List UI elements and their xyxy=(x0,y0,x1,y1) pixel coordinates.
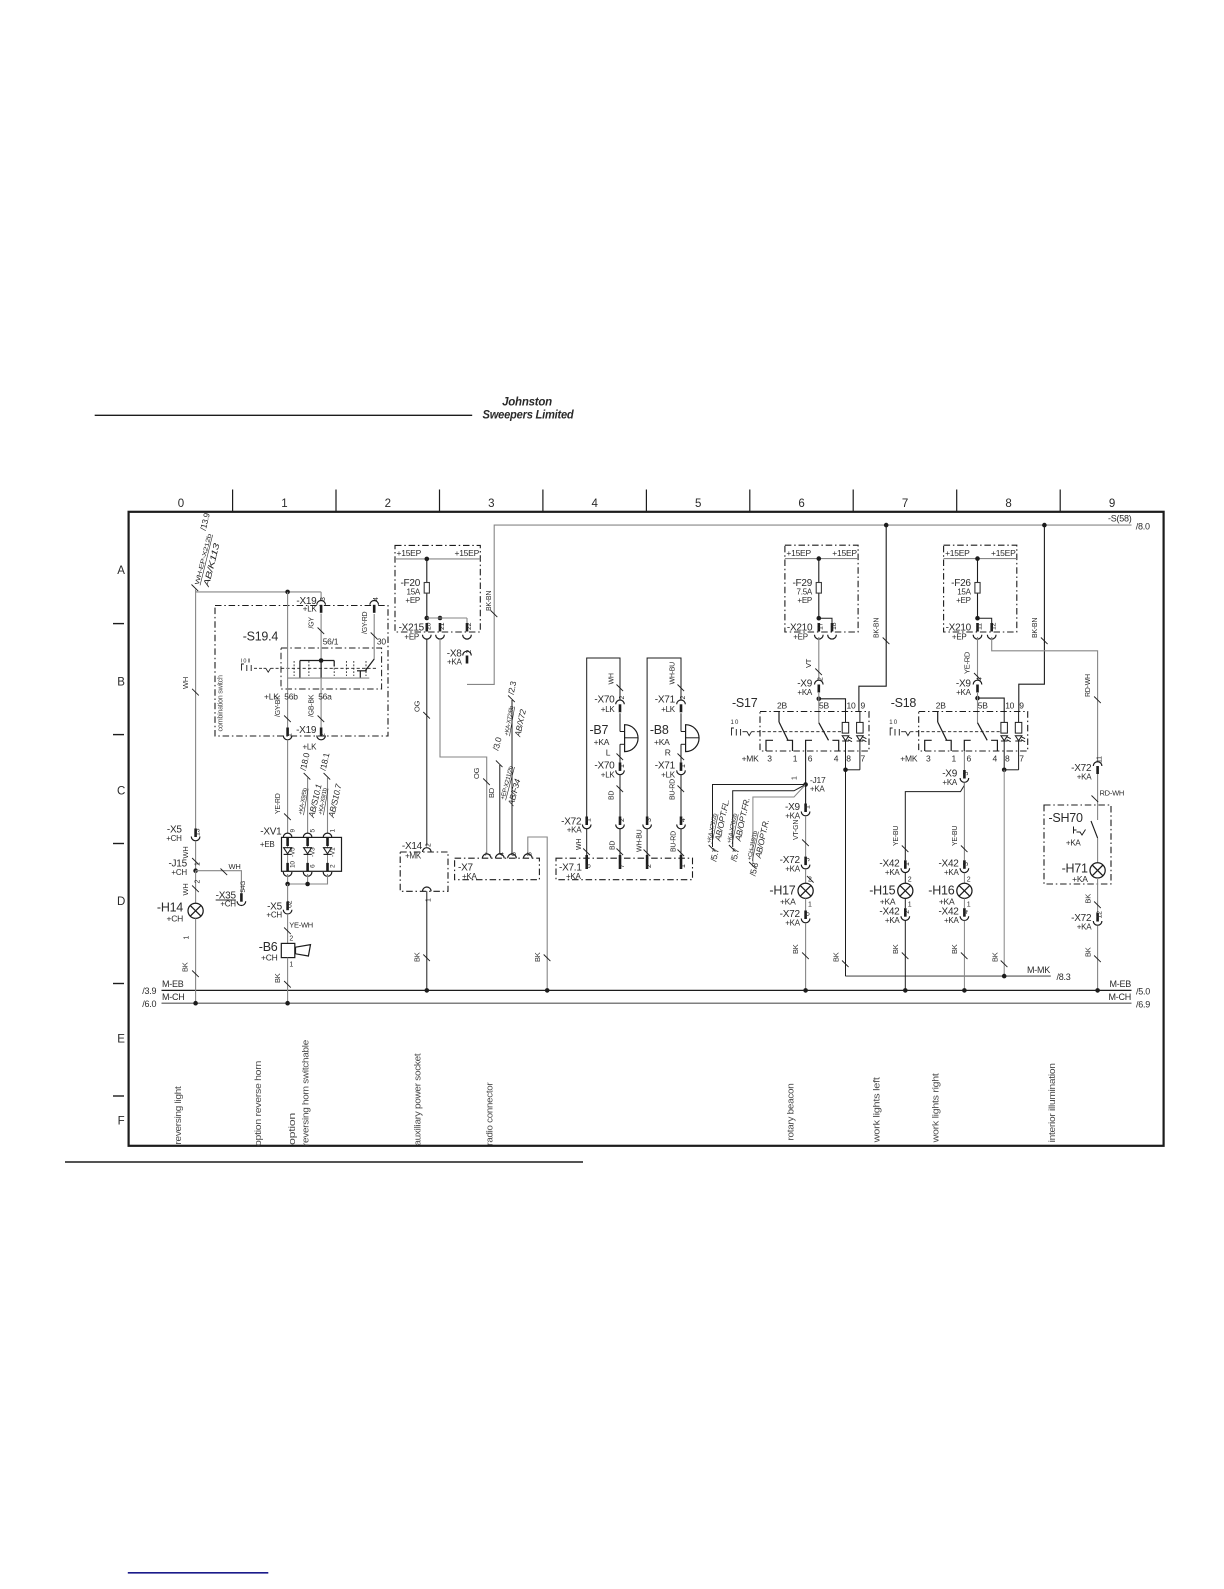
svg-text:YE-BU: YE-BU xyxy=(893,826,900,846)
switch -S18 indicator 9-7 xyxy=(1015,712,1025,752)
horn -B7 +KA L xyxy=(589,713,638,762)
svg-text:-H14: -H14 xyxy=(157,901,183,915)
svg-text:I 0 II: I 0 II xyxy=(241,658,251,664)
fuse -F29 7.5A +EP xyxy=(792,559,821,619)
svg-text:3: 3 xyxy=(963,862,970,866)
svg-text:4: 4 xyxy=(680,818,687,822)
svg-text:VT-GN: VT-GN xyxy=(793,820,800,840)
wire BK B6 to M-CH xyxy=(273,958,291,1004)
connector -X8 +KA pin 2 xyxy=(447,649,473,667)
svg-text:+LK: +LK xyxy=(302,743,317,752)
svg-text:-J17: -J17 xyxy=(810,775,826,785)
svg-text:4: 4 xyxy=(976,677,983,681)
svg-text:30: 30 xyxy=(377,636,386,646)
svg-text:11: 11 xyxy=(1096,756,1103,763)
switch -S17 box xyxy=(732,696,869,764)
switch -S17 contact 2B xyxy=(766,712,793,752)
wire YE-RD X19/1 to XV1 xyxy=(275,740,291,834)
svg-text:+KA: +KA xyxy=(885,916,901,925)
svg-text:-V3: -V3 xyxy=(310,847,317,857)
connector -X19 +LK pin 1 xyxy=(283,725,317,752)
row scale letters A-F xyxy=(113,565,125,1128)
svg-text:3: 3 xyxy=(963,772,970,776)
svg-text:6: 6 xyxy=(966,754,971,764)
wire RD-WH X210/12 to X72/11 xyxy=(992,637,1101,762)
svg-text:+KA: +KA xyxy=(1072,874,1088,884)
svg-text:-H16: -H16 xyxy=(928,884,954,898)
connector -X35 +CH pin 54G xyxy=(216,881,248,909)
svg-text:combination switch: combination switch xyxy=(216,675,225,731)
drawing frame border with column scale 0-9 xyxy=(129,490,1164,1146)
connector -X5 +CH pin 62 xyxy=(266,900,293,919)
node X14 on M-EB xyxy=(425,988,430,993)
svg-text:2B: 2B xyxy=(936,701,946,711)
svg-text:1: 1 xyxy=(793,754,798,764)
svg-text:3: 3 xyxy=(767,754,772,764)
wire WH to J15 xyxy=(181,841,199,871)
dashed linkage axis S19.4 xyxy=(281,661,378,676)
svg-text:BK: BK xyxy=(832,952,841,962)
svg-text:6: 6 xyxy=(511,852,518,856)
box +15EP fuse panel F20 xyxy=(395,545,480,632)
node -F29 feed xyxy=(817,556,822,561)
svg-text:5B: 5B xyxy=(819,701,829,711)
svg-text:+EP: +EP xyxy=(405,596,420,605)
svg-text:BK-BN: BK-BN xyxy=(486,591,493,611)
svg-text:3: 3 xyxy=(646,818,653,822)
svg-text:M-EB: M-EB xyxy=(1110,979,1132,989)
wire BK-BN S58 to S17 pin9 xyxy=(859,525,890,711)
connector -X19 pin 4 xyxy=(370,597,380,613)
wire /GY-RD 30 xyxy=(362,611,387,659)
svg-text:+MK: +MK xyxy=(742,754,760,764)
svg-text:2: 2 xyxy=(619,696,626,700)
svg-text:reversing horn switchable: reversing horn switchable xyxy=(301,1040,312,1146)
svg-text:-V5: -V5 xyxy=(290,847,297,857)
svg-text:+KA: +KA xyxy=(1066,839,1082,848)
svg-text:8: 8 xyxy=(1005,498,1011,510)
wire split to H15 xyxy=(893,783,965,861)
sheet header Johnston Sweepers Limited xyxy=(95,397,575,422)
lamp -H16 +KA work light xyxy=(928,873,972,909)
svg-text:+KA: +KA xyxy=(447,658,463,667)
connector -X19 pin 2 xyxy=(317,728,327,740)
svg-text:4: 4 xyxy=(963,910,970,914)
svg-text:2: 2 xyxy=(646,864,653,868)
svg-text:4: 4 xyxy=(592,498,599,510)
svg-text:4: 4 xyxy=(499,852,506,856)
svg-text:1: 1 xyxy=(808,902,812,909)
svg-text:+KA: +KA xyxy=(566,872,582,881)
node X9/2 split xyxy=(817,693,846,723)
svg-text:+KA: +KA xyxy=(654,737,670,747)
svg-text:2: 2 xyxy=(466,650,473,654)
svg-text:E: E xyxy=(117,1034,125,1046)
svg-text:1: 1 xyxy=(281,498,287,510)
svg-text:1 0: 1 0 xyxy=(889,720,898,726)
svg-text:6: 6 xyxy=(798,498,804,510)
svg-text:2: 2 xyxy=(967,877,971,884)
svg-text:/6.9: /6.9 xyxy=(1136,999,1150,1009)
svg-text:+LK: +LK xyxy=(303,605,318,614)
svg-text:Sweepers Limited: Sweepers Limited xyxy=(483,410,575,422)
wire OG X215/20 to X14 xyxy=(412,639,430,846)
svg-text:BK: BK xyxy=(891,944,900,954)
svg-text:56b: 56b xyxy=(284,691,298,701)
svg-text:1: 1 xyxy=(967,902,971,909)
svg-text:BK-BN: BK-BN xyxy=(874,618,881,638)
svg-text:C: C xyxy=(117,786,125,798)
connector X215 pin 22 xyxy=(463,622,473,639)
svg-text:4: 4 xyxy=(373,597,380,601)
svg-text:+KA: +KA xyxy=(785,864,801,873)
splice -J15 +CH xyxy=(168,859,201,877)
node F20 feed xyxy=(425,557,430,562)
svg-text:3: 3 xyxy=(926,754,931,764)
connector -X42 +KA pin 4 xyxy=(938,907,970,925)
svg-text:BK: BK xyxy=(273,973,282,983)
wire X7 pin8 to M-EB ground xyxy=(528,837,551,990)
wire BK H14 to M-CH xyxy=(181,918,199,1003)
svg-text:Johnston: Johnston xyxy=(502,397,552,409)
svg-text:+CH: +CH xyxy=(220,900,236,909)
svg-text:8: 8 xyxy=(1005,754,1010,764)
svg-text:L: L xyxy=(606,748,611,758)
svg-text:12: 12 xyxy=(991,622,998,630)
svg-text:-B7: -B7 xyxy=(589,723,608,737)
connector -X9 +KA pin 3 xyxy=(942,769,970,787)
connector -X215 +EP pin 20 xyxy=(399,622,433,641)
switch -S18 lamp return to M-MK xyxy=(990,751,1018,976)
svg-text:/GY-BK: /GY-BK xyxy=(275,695,282,717)
connector -X19 +LK pin 3 xyxy=(296,596,327,614)
svg-text:2: 2 xyxy=(904,910,911,914)
box +15EP fuse panel -F26 xyxy=(944,545,1017,632)
svg-text:-X71: -X71 xyxy=(655,695,676,706)
svg-text:WH-BU: WH-BU xyxy=(669,662,676,685)
svg-text:YE-RD: YE-RD xyxy=(275,793,282,814)
svg-text:F: F xyxy=(118,1116,125,1128)
svg-text:WH-BU: WH-BU xyxy=(637,829,644,852)
svg-text:18: 18 xyxy=(831,622,838,630)
svg-text:D: D xyxy=(117,896,125,908)
wire 56a /GB-BK xyxy=(309,678,332,727)
wire from AB/S10.1 /18.0 xyxy=(298,751,324,833)
svg-text:1: 1 xyxy=(804,805,811,809)
bottom separator line xyxy=(65,1161,583,1163)
node S58 junction to S17 xyxy=(884,523,889,528)
wire YE-WH to B6 xyxy=(284,915,313,943)
svg-text:+KA: +KA xyxy=(567,826,583,835)
diodes V5 V3 V1 with pins xyxy=(283,829,336,877)
node X9/4 split xyxy=(975,693,1004,723)
svg-text:/GY-RD: /GY-RD xyxy=(362,611,369,634)
wires to X7.1 with colours xyxy=(576,829,684,856)
box contact block of S19.4 xyxy=(281,648,382,689)
svg-text:auxiliary power socket: auxiliary power socket xyxy=(413,1053,424,1146)
connector -X9 +KA pin 1 xyxy=(785,785,811,821)
wire to H16 xyxy=(952,783,968,861)
svg-text:9: 9 xyxy=(1109,498,1115,510)
connector -X210 +EP pin 11 xyxy=(946,623,984,642)
svg-text:option reverse horn: option reverse horn xyxy=(253,1061,264,1146)
svg-text:+MK: +MK xyxy=(900,754,918,764)
node X210 17 xyxy=(817,616,833,623)
svg-text:6: 6 xyxy=(808,754,813,764)
svg-text:1: 1 xyxy=(951,754,956,764)
svg-text:-S17: -S17 xyxy=(732,696,758,710)
svg-text:BD: BD xyxy=(487,787,496,798)
svg-text:1: 1 xyxy=(194,862,201,866)
svg-text:1: 1 xyxy=(908,902,912,909)
svg-text:-S(58): -S(58) xyxy=(1108,514,1132,524)
svg-text:M-CH: M-CH xyxy=(1109,992,1132,1002)
horn -B6 +CH xyxy=(259,940,311,969)
svg-text:-XV1: -XV1 xyxy=(260,827,282,838)
svg-text:2: 2 xyxy=(426,843,433,847)
box -SH70 +KA interior illumination xyxy=(1044,805,1111,884)
wire 56b /GY-BK xyxy=(264,592,298,728)
svg-text:9: 9 xyxy=(1019,701,1024,711)
svg-text:1: 1 xyxy=(680,764,687,768)
svg-text:M-CH: M-CH xyxy=(162,992,185,1002)
svg-text:+KA: +KA xyxy=(944,868,960,877)
svg-text:8: 8 xyxy=(586,864,593,868)
svg-text:A: A xyxy=(117,565,125,577)
fuse -F20 15A +EP xyxy=(400,559,429,618)
svg-text:1 0: 1 0 xyxy=(731,720,740,726)
svg-text:1: 1 xyxy=(184,936,191,940)
wire BK H71 to X72/12 xyxy=(1083,878,1101,913)
svg-text:BK: BK xyxy=(1083,947,1092,957)
svg-text:+KA: +KA xyxy=(785,918,801,927)
svg-text:+KA: +KA xyxy=(797,688,813,697)
horn -B8 +KA R xyxy=(650,713,699,762)
svg-text:+KA: +KA xyxy=(944,916,960,925)
svg-text:+LK: +LK xyxy=(661,705,676,714)
svg-text:7: 7 xyxy=(619,864,626,868)
svg-text:BK: BK xyxy=(533,952,542,962)
svg-text:/8.3: /8.3 xyxy=(1057,972,1071,982)
wire to AB/X72 /2.3 xyxy=(504,680,528,854)
footer blue rule xyxy=(128,1572,268,1574)
box -X14 +MK auxiliary power socket xyxy=(400,841,448,902)
svg-text:4: 4 xyxy=(834,754,839,764)
svg-text:1: 1 xyxy=(286,733,293,737)
switch -S18 actuator xyxy=(889,720,1000,736)
svg-text:7: 7 xyxy=(902,498,908,510)
svg-text:2: 2 xyxy=(818,677,825,681)
svg-text:YE-WH: YE-WH xyxy=(289,921,313,930)
wire XV1 outputs join xyxy=(285,874,327,886)
switch -S18 indicator 10-8 xyxy=(1001,712,1011,752)
svg-text:-S19.4: -S19.4 xyxy=(243,630,279,644)
svg-text:WH: WH xyxy=(181,884,190,896)
svg-text:+15EP: +15EP xyxy=(397,548,422,558)
svg-text:12: 12 xyxy=(1096,911,1103,919)
svg-text:56a: 56a xyxy=(318,691,332,701)
svg-text:interior illumination: interior illumination xyxy=(1047,1063,1058,1142)
svg-text:1: 1 xyxy=(586,818,593,822)
svg-text:reversing light: reversing light xyxy=(173,1086,184,1145)
wire BK -H15 to M-EB xyxy=(891,921,908,993)
svg-text:7: 7 xyxy=(861,754,866,764)
wire VT X210/17 to X9/2 xyxy=(804,637,822,680)
svg-text:-SH70: -SH70 xyxy=(1049,811,1083,825)
function labels along bottom xyxy=(173,1040,1058,1146)
svg-text:8: 8 xyxy=(846,754,851,764)
wire from AB/S10.7 /18.1 xyxy=(318,751,344,833)
box -XV1 +EB diode module xyxy=(260,827,342,872)
wire YE-RD X210/11 to X9/4 xyxy=(963,637,981,680)
wire to AB/OPT.FL. xyxy=(707,785,806,863)
wire BD to AB/F34 /3.0 xyxy=(487,736,522,855)
wire WH from AB/K113 /13.9 xyxy=(181,511,222,828)
svg-text:54G: 54G xyxy=(240,881,247,893)
svg-text:+EP: +EP xyxy=(952,633,967,642)
svg-text:BD: BD xyxy=(608,791,615,800)
svg-text:+EB: +EB xyxy=(260,840,275,849)
wire BD to X72 xyxy=(608,775,623,817)
node X215 pins 20-21 link xyxy=(425,616,468,623)
svg-text:56/1: 56/1 xyxy=(323,636,339,646)
svg-text:YE-RD: YE-RD xyxy=(963,651,972,674)
svg-text:1: 1 xyxy=(680,864,687,868)
svg-text:radio connector: radio connector xyxy=(485,1083,496,1146)
wire BK-BN S58 to S18 pin9 xyxy=(1019,525,1048,712)
svg-text:2: 2 xyxy=(680,696,687,700)
wire S18 pin6 to X9/3 xyxy=(963,751,965,770)
svg-text:+KA: +KA xyxy=(942,778,958,787)
svg-text:work lights right: work lights right xyxy=(931,1073,942,1144)
connector -X5 +CH pin 13 xyxy=(166,825,201,843)
svg-text:+KA: +KA xyxy=(939,897,955,907)
wire /GY 56/1 xyxy=(309,614,339,661)
connector -X72 +KA pins 1-4 xyxy=(561,817,687,835)
svg-text:BK: BK xyxy=(950,944,959,954)
node X210 11 xyxy=(975,616,992,623)
svg-text:2: 2 xyxy=(194,880,201,884)
svg-text:+KA: +KA xyxy=(880,897,896,907)
box -X7 +KA radio connector xyxy=(455,852,540,881)
wire loop feed horn -B7 xyxy=(587,658,623,817)
svg-text:3: 3 xyxy=(488,498,494,510)
svg-text:+KA: +KA xyxy=(885,868,901,877)
switch actuator S19.4 xyxy=(241,658,281,672)
box +15EP fuse panel -F29 xyxy=(785,545,858,632)
svg-text:+15EP: +15EP xyxy=(786,548,811,558)
wire RD-WH to SH70 xyxy=(1092,774,1125,820)
svg-text:R: R xyxy=(665,748,671,758)
box -S19.4 combination switch xyxy=(215,606,388,737)
svg-text:13: 13 xyxy=(194,828,201,836)
splice -J17 +KA xyxy=(803,775,826,794)
wire common bar in S19.4 xyxy=(288,677,370,679)
wire to AB/OPT.FR. xyxy=(727,785,806,863)
wire WH branch to X35 xyxy=(196,862,242,893)
svg-text:work lights left: work lights left xyxy=(872,1077,883,1144)
svg-text:5: 5 xyxy=(695,498,701,510)
svg-text:OG: OG xyxy=(472,767,481,779)
svg-text:+LK: +LK xyxy=(661,771,676,780)
svg-text:+CH: +CH xyxy=(166,834,182,843)
svg-text:+KA: +KA xyxy=(810,785,826,794)
svg-text:WH: WH xyxy=(229,862,241,871)
svg-text:+KA: +KA xyxy=(956,688,972,697)
switch -S17 contact 5B xyxy=(806,723,839,751)
connector -X72 +KA pin 5 xyxy=(780,855,812,873)
wire to AB/OPT.R. xyxy=(747,785,806,877)
svg-text:rotary beacon: rotary beacon xyxy=(786,1084,797,1141)
svg-text:62: 62 xyxy=(286,900,293,908)
bus -S(58) /8.0 xyxy=(467,514,1150,685)
svg-text:-V1: -V1 xyxy=(330,847,337,857)
connector -X42 +KA pin 3 xyxy=(938,859,970,877)
svg-text:WH: WH xyxy=(608,673,615,684)
svg-text:+MK: +MK xyxy=(405,852,422,861)
switch SH70 contact xyxy=(1066,821,1098,848)
connector -X71 +LK pin 2 xyxy=(655,695,687,715)
lamp -H71 +KA xyxy=(1062,838,1106,884)
svg-text:BU-RD: BU-RD xyxy=(671,831,678,852)
connector -X210 +EP pin 17 xyxy=(787,622,825,641)
svg-text:11: 11 xyxy=(976,623,983,630)
svg-text:3: 3 xyxy=(320,597,327,601)
svg-text:-X19: -X19 xyxy=(296,725,317,736)
svg-text:22: 22 xyxy=(466,622,473,630)
bus M-CH xyxy=(142,992,1150,1009)
wire BK-BN from S58 to X8 xyxy=(486,591,498,617)
switch -S17 indicator 9-7 xyxy=(857,712,867,752)
connector -X72 +KA pin 12 xyxy=(1071,911,1103,931)
svg-text:+15EP: +15EP xyxy=(454,548,479,558)
wire S17 pin6 to J17 xyxy=(792,751,806,785)
wire X14 to M-EB xyxy=(413,891,430,990)
svg-text:8: 8 xyxy=(527,852,534,856)
svg-text:+CH: +CH xyxy=(266,910,282,919)
fuse -F26 15A +EP xyxy=(951,559,980,619)
svg-text:WH: WH xyxy=(576,839,583,850)
svg-text:0: 0 xyxy=(178,498,184,510)
bus M-MK /8.3 xyxy=(845,965,1070,982)
svg-text:RD-WH: RD-WH xyxy=(1100,789,1125,798)
svg-text:7: 7 xyxy=(486,852,493,856)
svg-text:OG: OG xyxy=(412,700,421,712)
svg-text:/GB-BK: /GB-BK xyxy=(309,694,316,717)
node X7/8 on M-EB xyxy=(545,988,550,993)
svg-text:1: 1 xyxy=(792,776,799,780)
lamp -H14 +CH reversing light xyxy=(157,901,203,940)
svg-text:2: 2 xyxy=(289,936,293,943)
svg-text:5: 5 xyxy=(804,858,811,862)
node B6 on M-CH xyxy=(285,1001,290,1006)
svg-text:-B8: -B8 xyxy=(650,723,669,737)
node -F26 feed xyxy=(975,556,980,561)
svg-text:+15EP: +15EP xyxy=(832,548,857,558)
connector -X72 +KA pin 6 xyxy=(780,909,812,927)
svg-text:BK: BK xyxy=(181,962,190,972)
node H14 on M-CH xyxy=(193,1001,198,1006)
svg-text:-X70: -X70 xyxy=(594,695,615,706)
svg-text:1: 1 xyxy=(904,862,911,866)
wire BK -H16 to M-EB xyxy=(950,921,967,993)
connector -X72 +KA pin 11 xyxy=(1071,756,1103,781)
connector X210 pin 18 xyxy=(828,622,838,639)
svg-text:+LK: +LK xyxy=(601,705,616,714)
svg-text:+CH: +CH xyxy=(171,868,187,877)
svg-text:/3.9: /3.9 xyxy=(142,986,156,996)
svg-text:VT: VT xyxy=(804,658,813,668)
